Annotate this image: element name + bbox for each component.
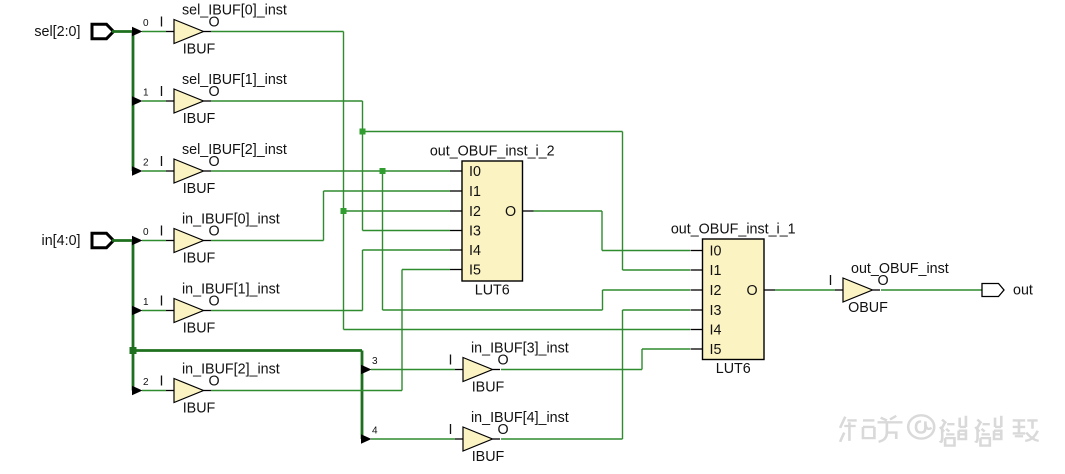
net sel[2]_IBUF: vertical down — [382, 171, 384, 310]
net in[3]_IBUF: out right — [501, 369, 642, 371]
net sel[1]_IBUF: into LUT1 I3 — [363, 230, 451, 232]
svg-text:in_IBUF[4]_inst: in_IBUF[4]_inst — [471, 410, 569, 426]
net in[4]_IBUF: out right — [501, 438, 623, 440]
svg-text:IBUF: IBUF — [183, 42, 216, 58]
svg-text:IBUF: IBUF — [183, 401, 216, 417]
buffer in_IBUF[0]_inst (IBUF) — [166, 240, 174, 242]
svg-text:I2: I2 — [710, 283, 722, 299]
svg-text:in[4:0]: in[4:0] — [42, 233, 81, 249]
svg-text:0: 0 — [143, 227, 149, 238]
svg-text:I: I — [160, 15, 164, 31]
wire in bus horizontal from port — [112, 239, 133, 242]
svg-text:I: I — [829, 273, 833, 289]
svg-text:I: I — [449, 422, 453, 438]
junction sel[2]_IBUF — [380, 168, 386, 174]
net sel[1]_IBUF: vertical down to LUT2 I1 — [622, 132, 624, 271]
net sel[0]_IBUF: IBUF out right — [211, 31, 344, 33]
net sel[0]_IBUF: vertical — [343, 32, 345, 330]
svg-text:LUT6: LUT6 — [475, 283, 510, 299]
svg-text:I5: I5 — [469, 263, 481, 279]
net sel[2]: tap to IBUF — [142, 170, 166, 172]
svg-text:I3: I3 — [469, 224, 481, 240]
svg-text:IBUF: IBUF — [183, 251, 216, 267]
svg-text:sel[2:0]: sel[2:0] — [34, 24, 80, 40]
svg-text:4: 4 — [372, 426, 378, 437]
net sel[0]: tap to IBUF — [142, 31, 166, 33]
svg-text:0: 0 — [143, 18, 149, 29]
svg-text:2: 2 — [143, 158, 149, 169]
bus tap bit 0 — [132, 27, 143, 37]
svg-text:I5: I5 — [710, 342, 722, 358]
net sel[1]_IBUF: branch right toward LUT2 I1 — [363, 131, 623, 133]
net in[1]: tap to IBUF — [142, 310, 166, 312]
buffer sel_IBUF[1]_inst (IBUF) — [166, 100, 174, 102]
svg-text:I1: I1 — [710, 263, 722, 279]
net in[3]: tap to IBUF — [371, 369, 455, 371]
svg-text:I1: I1 — [469, 184, 481, 200]
bus tap bit 3 — [361, 365, 372, 375]
bus tap bit 2 — [132, 166, 143, 176]
svg-text:sel_IBUF[0]_inst: sel_IBUF[0]_inst — [182, 3, 287, 19]
buffer sel_IBUF[0]_inst (IBUF) — [166, 31, 174, 33]
net sel[1]_IBUF: into LUT2 I1 — [623, 269, 691, 271]
wire sel bus vertical — [132, 32, 135, 172]
net out_OBUF_inst_i_2_n_0: LUT1 O right — [534, 210, 603, 212]
net in[1]_IBUF: out right — [211, 310, 363, 312]
svg-text:I: I — [160, 84, 164, 100]
svg-text:I: I — [449, 353, 453, 369]
svg-text:OBUF: OBUF — [848, 300, 888, 316]
net in[2]_IBUF: into LUT1 I5 — [402, 269, 450, 271]
svg-text:O: O — [505, 204, 516, 220]
svg-text:IBUF: IBUF — [183, 321, 216, 337]
svg-text:IBUF: IBUF — [472, 449, 505, 465]
svg-text:in_IBUF[0]_inst: in_IBUF[0]_inst — [182, 212, 280, 228]
net sel[2]_IBUF: into LUT2 I2 — [603, 289, 691, 291]
bus tap bit 2 — [132, 386, 143, 396]
watermark zhihu — [840, 415, 1039, 445]
svg-text:O: O — [747, 283, 758, 299]
net out: OBUF to port — [881, 289, 982, 291]
svg-text:I4: I4 — [469, 243, 481, 259]
svg-text:in_IBUF[3]_inst: in_IBUF[3]_inst — [471, 341, 569, 357]
svg-text:3: 3 — [372, 356, 378, 367]
svg-text:LUT6: LUT6 — [716, 361, 751, 377]
net sel[2]_IBUF: horizontal toward LUT2 — [383, 309, 603, 311]
svg-text:sel_IBUF[1]_inst: sel_IBUF[1]_inst — [182, 72, 287, 88]
svg-text:IBUF: IBUF — [183, 181, 216, 197]
net sel[0]_IBUF: to LUT2 I4 — [344, 329, 691, 331]
net in[4]_IBUF: into LUT2 I3 — [623, 309, 691, 311]
svg-text:I2: I2 — [469, 204, 481, 220]
svg-text:I: I — [160, 224, 164, 240]
wire in bus vertical — [132, 241, 135, 391]
svg-text:out_OBUF_inst_i_2: out_OBUF_inst_i_2 — [430, 144, 555, 160]
bus tap bit 1 — [132, 96, 143, 106]
net in[0]_IBUF: out right — [211, 240, 324, 242]
net in[0]: tap to IBUF — [142, 240, 166, 242]
net in[2]_IBUF: out right — [211, 390, 402, 392]
bus tap bit 4 — [361, 434, 372, 444]
net in[1]_IBUF: into LUT1 I4 — [363, 249, 451, 251]
svg-text:I0: I0 — [710, 244, 722, 260]
buffer in_IBUF[4]_inst (IBUF) — [455, 438, 463, 440]
svg-text:IBUF: IBUF — [183, 111, 216, 127]
net in[4]: tap to IBUF — [371, 438, 455, 440]
svg-text:in_IBUF[2]_inst: in_IBUF[2]_inst — [182, 362, 280, 378]
svg-text:I4: I4 — [710, 323, 722, 339]
svg-text:out_OBUF_inst: out_OBUF_inst — [851, 261, 949, 277]
net sel[1]: tap to IBUF — [142, 100, 166, 102]
port sel[2:0] — [92, 24, 114, 38]
buffer out_OBUF_inst (OBUF) — [835, 289, 843, 291]
net sel[1]_IBUF: IBUF out right — [211, 100, 363, 102]
wire sel bus horizontal from port — [112, 30, 133, 33]
net sel[2]_IBUF: vertical up to I2 row — [602, 290, 604, 310]
buffer in_IBUF[3]_inst (IBUF) — [455, 369, 463, 371]
bus tap bit 0 — [132, 236, 143, 246]
net in[3]_IBUF: vertical up — [641, 349, 643, 370]
svg-text:IBUF: IBUF — [472, 380, 505, 396]
junction sel[1]_IBUF branch — [360, 129, 366, 135]
net in[2]: tap to IBUF — [142, 390, 166, 392]
LUT6 out_OBUF_inst_i_1 — [703, 239, 765, 360]
net out_OBUF_inst_i_2_n_0: vertical down — [601, 211, 603, 251]
LUT6 out_OBUF_inst_i_2 — [462, 161, 523, 281]
net in[2]_IBUF: vertical up — [401, 270, 403, 391]
svg-text:out_OBUF_inst_i_1: out_OBUF_inst_i_1 — [671, 222, 796, 238]
junction sel[0]_IBUF at LUT1 I2 row — [341, 208, 347, 214]
wire in bus branch horizontal — [133, 349, 362, 352]
port out — [982, 284, 1004, 297]
net out_OBUF: LUT2 O to OBUF — [775, 289, 835, 291]
net sel[1]_IBUF: vertical — [362, 101, 364, 231]
net in[1]_IBUF: vertical up — [362, 250, 364, 311]
bus tap bit 1 — [132, 306, 143, 316]
svg-text:1: 1 — [143, 297, 149, 308]
svg-text:I: I — [160, 374, 164, 390]
svg-text:I3: I3 — [710, 303, 722, 319]
buffer sel_IBUF[2]_inst (IBUF) — [166, 170, 174, 172]
svg-text:out: out — [1013, 283, 1033, 299]
svg-text:in_IBUF[1]_inst: in_IBUF[1]_inst — [182, 282, 280, 298]
net sel[2]_IBUF: IBUF out to LUT1 I0 — [211, 170, 450, 172]
net in[4]_IBUF: vertical up — [622, 310, 624, 439]
port in[4:0] — [92, 233, 114, 247]
svg-text:I: I — [160, 154, 164, 170]
junction in bus branch — [130, 347, 137, 354]
buffer in_IBUF[2]_inst (IBUF) — [166, 390, 174, 392]
net sel[0]_IBUF: branch to LUT1 I2 — [344, 210, 451, 212]
svg-text:I0: I0 — [469, 164, 481, 180]
buffer in_IBUF[1]_inst (IBUF) — [166, 310, 174, 312]
svg-text:1: 1 — [143, 88, 149, 99]
net in[0]_IBUF: vertical up — [323, 191, 325, 241]
net in[3]_IBUF: into LUT2 I5 — [642, 348, 690, 350]
svg-text:I: I — [160, 294, 164, 310]
svg-text:2: 2 — [143, 377, 149, 388]
net out_OBUF_inst_i_2_n_0: into LUT2 I0 — [602, 250, 690, 252]
svg-text:sel_IBUF[2]_inst: sel_IBUF[2]_inst — [182, 142, 287, 158]
wire in bus branch vertical — [361, 351, 364, 440]
net in[0]_IBUF: into LUT1 I1 — [324, 190, 451, 192]
